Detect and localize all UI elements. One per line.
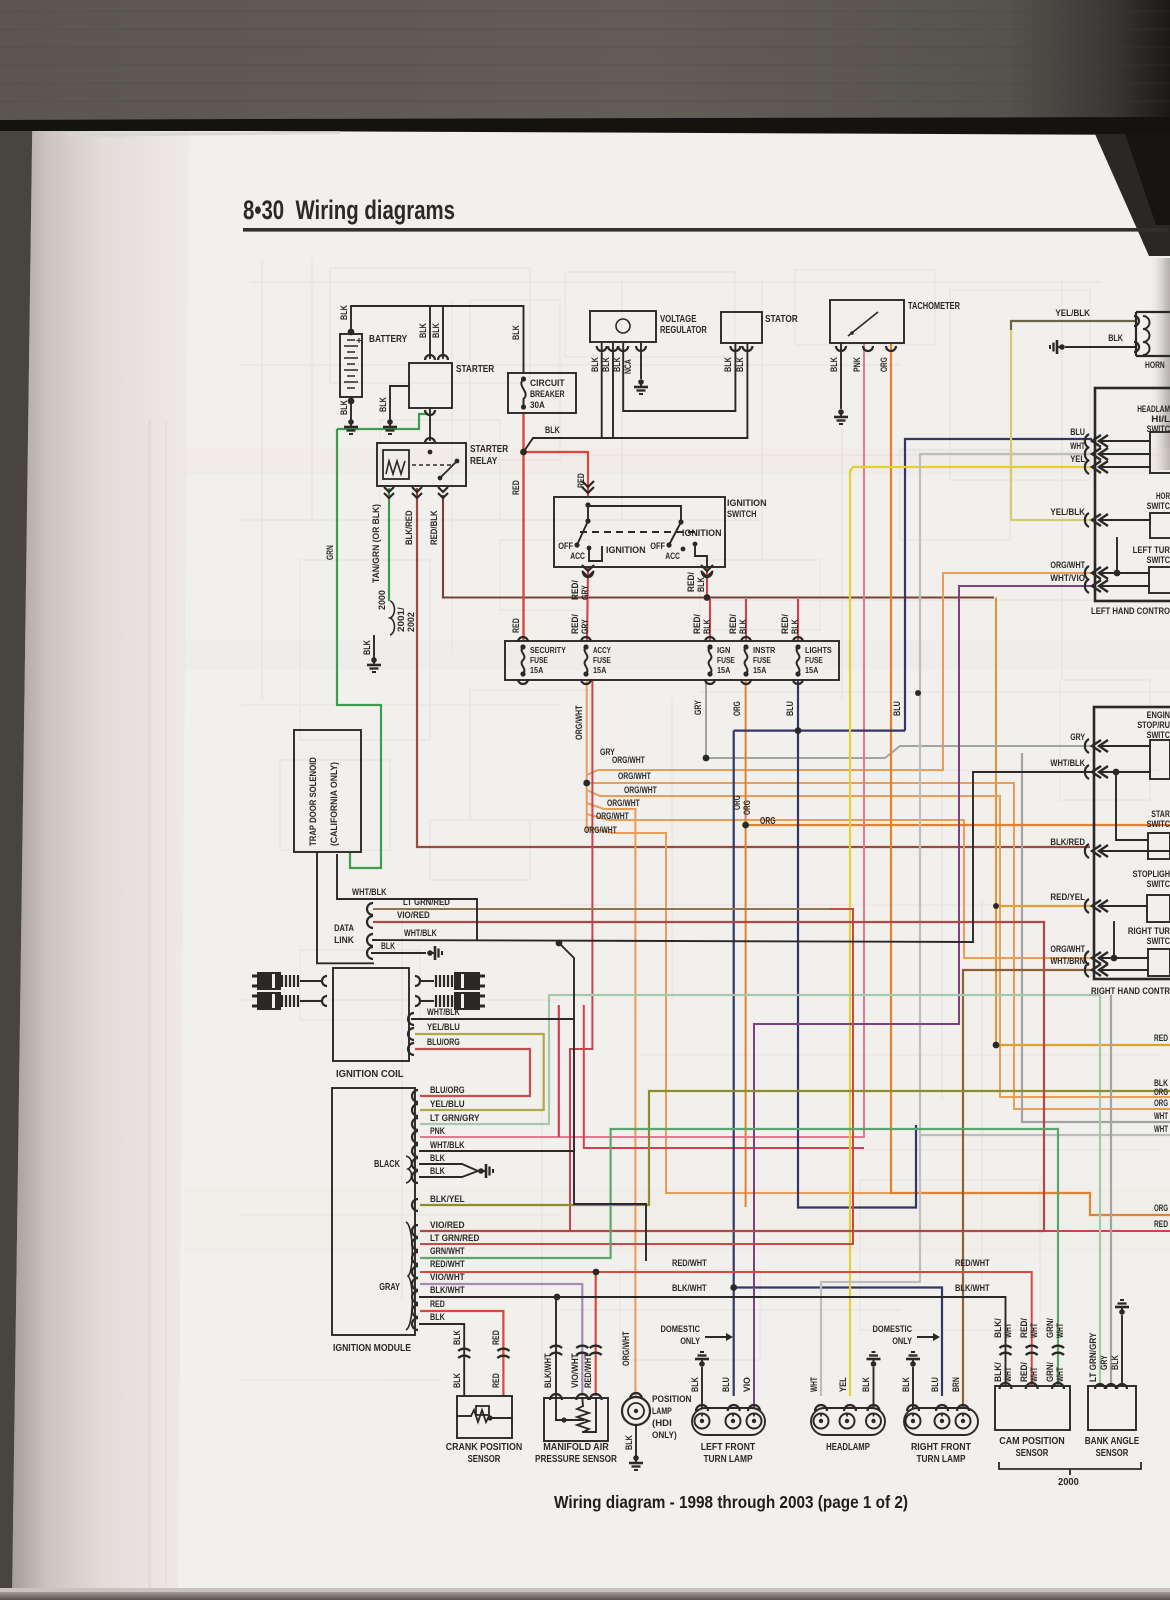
svg-text:ORG/WHT: ORG/WHT: [612, 755, 645, 765]
connector: [1026, 1383, 1038, 1389]
component detail at (455, 993): [415, 996, 420, 1006]
svg-text:TACHOMETER: TACHOMETER: [908, 301, 961, 312]
svg-text:RIGHT FRONT: RIGHT FRONT: [911, 1441, 972, 1453]
headlamp: [811, 1408, 885, 1435]
svg-text:ORG/WHT: ORG/WHT: [607, 798, 640, 808]
svg-text:POSITION: POSITION: [652, 1394, 692, 1405]
symbol detail at (344,346): [344, 345, 358, 347]
svg-text:BLK: BLK: [696, 577, 707, 592]
wire ORG from (745.6,680): [745, 680, 747, 1207]
svg-text:FUSE: FUSE: [805, 655, 823, 665]
wire BLK from (556,1297): [555, 1297, 557, 1396]
connector: [701, 571, 713, 577]
svg-text:RIGHT HAND CONTR: RIGHT HAND CONTR: [1091, 986, 1170, 997]
left front turn lamp: [692, 1408, 765, 1435]
trap door solenoid (California only): [294, 730, 361, 852]
ground: [348, 419, 354, 425]
symbol detail at (440,478): [440, 461, 457, 478]
wire BLK from (1100,851): [1100, 850, 1170, 852]
svg-text:BREAKER: BREAKER: [530, 389, 565, 400]
connector: [868, 1405, 880, 1411]
wire BLU from (733.7,730.6): [733, 731, 735, 1396]
svg-text:STOP/RU: STOP/RU: [1137, 720, 1170, 730]
symbol detail at (490,1418): [487, 1415, 492, 1420]
connector: [1095, 1384, 1105, 1389]
wire BLK from (1100,970): [1100, 969, 1148, 971]
svg-text:INSTR: INSTR: [753, 645, 776, 655]
connector: [863, 346, 873, 351]
svg-text:BLK: BLK: [723, 357, 734, 372]
wire BLK from (457,1416): [457, 1415, 471, 1417]
svg-text:WHT/BLK: WHT/BLK: [427, 1007, 460, 1017]
wire YEL/BLU from (415,1034): [415, 1034, 544, 1110]
svg-text:ORG/WHT: ORG/WHT: [618, 771, 651, 781]
wire ? from (726,1333): [726, 1333, 733, 1341]
svg-text:BLU: BLU: [1070, 427, 1085, 438]
connector: [1092, 448, 1101, 460]
symbol detail at (390,601): [390, 601, 395, 635]
svg-text:VIO/RED: VIO/RED: [397, 910, 430, 920]
wire RED/BLK from (583.8,1005): [584, 1005, 864, 1148]
svg-text:GRY: GRY: [580, 619, 591, 634]
wire BLK from (636,1425): [635, 1425, 637, 1455]
wire RED/BLK from (592.4,680): [570, 680, 1170, 1231]
junction dot: [993, 903, 999, 909]
svg-text:RED: RED: [576, 473, 587, 488]
symbol detail at (1070,1469): [1069, 1469, 1071, 1475]
svg-text:Wiring diagram - 1998 through: Wiring diagram - 1998 through 2003 (page…: [554, 1492, 908, 1512]
connector: [582, 487, 594, 493]
svg-text:PRESSURE SENSOR: PRESSURE SENSOR: [535, 1453, 617, 1465]
svg-text:VIO/RED: VIO/RED: [430, 1220, 465, 1231]
starter relay coil: [383, 450, 409, 479]
svg-text:BLK: BLK: [362, 640, 373, 655]
svg-text:IGNITION COIL: IGNITION COIL: [336, 1069, 404, 1080]
junction dot: [795, 727, 802, 734]
connector: [1000, 1383, 1012, 1389]
wire RED from (420,1311): [420, 1311, 503, 1396]
ground: [427, 950, 433, 956]
svg-text:IGNITION: IGNITION: [682, 528, 722, 539]
junction dot: [520, 449, 527, 456]
wire BLK from (582.3,1398): [581, 1398, 584, 1406]
connector: [367, 903, 373, 915]
svg-text:IGNITION MODULE: IGNITION MODULE: [333, 1343, 411, 1354]
page bottom edge: [0, 1588, 1170, 1592]
symbol detail at (683,549): [681, 547, 686, 552]
svg-text:CIRCUIT: CIRCUIT: [530, 378, 565, 389]
svg-text:DOMESTIC: DOMESTIC: [661, 1324, 701, 1335]
symbol detail at (623,326): [616, 319, 630, 333]
symbol detail at (347,340): [347, 339, 355, 341]
page corner curl highlight: [62, 131, 340, 137]
wire BLK from (623.2,344): [623, 344, 735, 411]
starter motor STARTER: [409, 363, 452, 408]
connector: [438, 355, 448, 360]
wire BLK from (420,1177): [420, 1171, 478, 1177]
wire ORG from (891,343): [891, 343, 1170, 1215]
connector: [907, 1405, 919, 1411]
svg-text:ONLY): ONLY): [652, 1430, 677, 1441]
symbol detail at (425,443): [425, 438, 435, 443]
header rule: [243, 228, 1168, 232]
connector: [408, 1028, 414, 1040]
svg-text:BLK: BLK: [790, 619, 801, 634]
wire BLK from (574,1151): [574, 1151, 646, 1260]
svg-text:BATTERY: BATTERY: [369, 333, 407, 345]
connector: [408, 1043, 414, 1055]
svg-text:BLK: BLK: [861, 1377, 872, 1392]
svg-text:STOPLIGH: STOPLIGH: [1133, 869, 1170, 879]
svg-text:ORG: ORG: [1154, 1098, 1168, 1108]
wire RED/BLK from (558.8,1005): [558, 1005, 560, 1137]
symbol detail at (589,548): [587, 546, 592, 551]
symbol detail at (588,505): [587, 505, 589, 521]
svg-text:HOR: HOR: [1156, 491, 1170, 501]
svg-text:WHT/BLK: WHT/BLK: [430, 1140, 465, 1151]
scanner lid top band: [0, 0, 1170, 120]
svg-text:YEL/BLK: YEL/BLK: [1050, 507, 1085, 518]
wire VIO/RED from (373,922): [373, 922, 1044, 1231]
symbol detail at (873.5,1421): [866, 1414, 881, 1429]
svg-text:DATA: DATA: [334, 923, 354, 934]
right turn switch: [1148, 949, 1170, 976]
right front turn lamp: [904, 1408, 978, 1435]
svg-text:+: +: [356, 336, 362, 347]
symbol detail at (523,647): [520, 644, 525, 649]
svg-text:BLK: BLK: [339, 305, 350, 320]
connector: [1092, 964, 1101, 976]
svg-text:BLK: BLK: [381, 941, 395, 951]
svg-text:SWITC: SWITC: [1147, 819, 1170, 829]
symbol detail at (1136,312): [1135, 312, 1137, 356]
symbol detail at (588,521): [585, 518, 590, 523]
svg-text:WHT: WHT: [1055, 1367, 1066, 1382]
symbol detail at (754,1421): [747, 1414, 762, 1429]
symbol detail at (347,376): [347, 375, 355, 377]
svg-text:YEL: YEL: [1070, 454, 1085, 465]
ground: [1059, 344, 1065, 350]
connector: [590, 1394, 602, 1400]
wire ORG/WHT from (586.7,790): [587, 790, 1170, 1097]
connector: [742, 346, 752, 351]
symbol detail at (733,1421): [726, 1414, 741, 1429]
connector: [367, 947, 373, 959]
svg-text:FUSE: FUSE: [717, 655, 735, 665]
wire BLK from (373,940): [373, 940, 973, 942]
wire BLK from (1100,520): [1100, 519, 1150, 521]
svg-text:MANIFOLD AIR: MANIFOLD AIR: [543, 1441, 609, 1453]
svg-text:15A: 15A: [753, 665, 766, 675]
svg-text:BLK: BLK: [702, 619, 713, 634]
svg-text:BLK: BLK: [545, 425, 560, 436]
wire BLK from (913,1408): [912, 1368, 914, 1408]
wire PNK from (864,343): [420, 343, 864, 1137]
svg-text:BANK ANGLE: BANK ANGLE: [1085, 1435, 1140, 1447]
svg-text:RED: RED: [511, 618, 522, 633]
connector: [936, 1405, 948, 1411]
svg-text:SWITC: SWITC: [1147, 424, 1170, 434]
wire BLK from (641,342): [640, 342, 642, 378]
wire BLK from (583,1432): [583, 1398, 596, 1432]
wire BLK from (351,334): [351, 306, 524, 373]
connector: [583, 572, 593, 577]
connector: [844, 1405, 856, 1411]
svg-text:2002: 2002: [406, 612, 417, 632]
wire RED from (523.5,452): [524, 452, 589, 497]
wire BLK from (374,636): [373, 636, 375, 658]
svg-text:TAN/GRN (OR BLK): TAN/GRN (OR BLK): [371, 504, 382, 583]
svg-text:BLU: BLU: [721, 1377, 732, 1392]
ignition switch: [554, 497, 725, 567]
symbol detail at (412,465): [412, 464, 452, 466]
symbol detail at (636,1411): [628, 1403, 644, 1419]
symbol detail at (821,1421): [814, 1414, 829, 1429]
wire BLK from (1122,1386): [1121, 1316, 1123, 1386]
wire RED/BLK from (798,599): [797, 599, 799, 641]
symbol detail at (523.5,407): [521, 404, 526, 409]
svg-text:(HDI: (HDI: [652, 1418, 672, 1429]
headlamp hi/lo switch: [1150, 432, 1170, 473]
ignition module: [332, 1088, 415, 1335]
wire BLK from (559,943): [412, 943, 574, 1019]
junction dot: [554, 1294, 561, 1301]
wire BLK from (430,408): [429, 408, 431, 440]
svg-text:WHT: WHT: [809, 1377, 820, 1392]
svg-text:SWITC: SWITC: [1147, 936, 1170, 946]
ground: [699, 1361, 705, 1367]
svg-text:HEADLAM: HEADLAM: [1137, 404, 1170, 414]
svg-text:BLU: BLU: [785, 701, 796, 716]
ground: [478, 1168, 484, 1174]
junction dot: [593, 1269, 600, 1276]
wire BLK from (1100,573): [1100, 572, 1149, 574]
ground: [633, 1455, 639, 1461]
top-right corner shadow wedge: [1095, 134, 1170, 256]
svg-text:LT GRN/GRY: LT GRN/GRY: [430, 1113, 480, 1124]
svg-text:(CALIFORNIA ONLY): (CALIFORNIA ONLY): [329, 762, 340, 846]
wire BLU from (733.7,1287.5): [734, 1288, 942, 1397]
svg-text:PNK: PNK: [852, 357, 863, 372]
symbol detail at (852,333): [850, 331, 854, 335]
svg-text:STAR: STAR: [1151, 809, 1170, 819]
wire #d89a3a from (996,597.5): [995, 598, 997, 1046]
svg-text:LIGHTS: LIGHTS: [805, 645, 832, 655]
connector: [367, 934, 373, 946]
svg-text:PNK: PNK: [430, 1126, 445, 1137]
svg-text:ORG: ORG: [879, 357, 890, 372]
symbol detail at (847,1421): [840, 1414, 855, 1429]
wire ORG/WHT from (586.7,775): [587, 573, 1092, 775]
svg-text:BLK/YEL: BLK/YEL: [430, 1194, 465, 1205]
svg-text:REGULATOR: REGULATOR: [660, 325, 707, 336]
svg-text:ORG/WHT: ORG/WHT: [596, 811, 629, 821]
svg-text:LT GRN/RED: LT GRN/RED: [403, 897, 450, 907]
svg-text:DOMESTIC: DOMESTIC: [873, 1324, 913, 1335]
svg-text:BLK: BLK: [339, 400, 350, 415]
wire BLK from (1116,772): [1116, 772, 1148, 840]
svg-text:BLK: BLK: [418, 323, 429, 338]
wire BLK from (1100,958): [1100, 957, 1148, 959]
svg-text:LEFT HAND CONTRO: LEFT HAND CONTRO: [1091, 606, 1170, 617]
symbol detail at (942,1421): [935, 1414, 950, 1429]
wire BLK from (918,1337): [918, 1336, 933, 1338]
svg-text:BLK: BLK: [735, 357, 746, 372]
svg-text:BLK: BLK: [690, 1377, 701, 1392]
svg-text:RED: RED: [1154, 1033, 1168, 1043]
connector: [1092, 567, 1101, 579]
wire BLK from (841,343): [840, 343, 842, 408]
wire BLK from (1100,746): [1100, 745, 1150, 747]
voltage regulator: [590, 311, 656, 342]
svg-text:BRN: BRN: [951, 1377, 962, 1392]
svg-text:LINK: LINK: [334, 935, 354, 946]
page top edge shadow: [0, 117, 1170, 135]
left hand controls box: [1095, 388, 1170, 601]
svg-text:BLK/WHT: BLK/WHT: [430, 1285, 465, 1296]
left turn switch: [1149, 567, 1170, 593]
svg-text:YEL: YEL: [838, 1377, 849, 1392]
svg-text:BLK: BLK: [829, 357, 840, 372]
wire GRN from (428,414): [337, 414, 428, 429]
stoplight switch: [1147, 895, 1170, 922]
svg-text:BLK: BLK: [430, 1166, 445, 1177]
svg-text:ORG: ORG: [732, 701, 743, 716]
connector: [1134, 316, 1139, 326]
svg-text:ONLY: ONLY: [680, 1336, 700, 1347]
svg-text:RELAY: RELAY: [470, 455, 497, 467]
connector: [412, 1158, 418, 1170]
symbol detail at (681,522): [678, 519, 683, 524]
svg-text:NCA: NCA: [623, 359, 634, 374]
wire RED/BLK from (443,495): [443, 495, 994, 598]
wire #58a058 from (373,909): [373, 908, 830, 910]
wire BLK from (747.4,344): [746, 344, 748, 438]
symbol detail at (588,505): [585, 502, 590, 507]
svg-text:SENSOR: SENSOR: [468, 1453, 501, 1465]
wire BLU from (905,730.6): [905, 439, 1092, 731]
symbol detail at (471,1416): [471, 1410, 489, 1422]
connector: [412, 1104, 418, 1116]
svg-text:ONLY: ONLY: [892, 1336, 912, 1347]
svg-text:BLK/WHT: BLK/WHT: [955, 1283, 990, 1294]
svg-text:RED/WHT: RED/WHT: [583, 1353, 594, 1388]
connector: [608, 346, 618, 351]
svg-text:BLK/RED: BLK/RED: [1050, 837, 1085, 848]
svg-text:ORG/WHT: ORG/WHT: [624, 785, 657, 795]
connector: [582, 571, 594, 577]
svg-text:LT GRN/RED: LT GRN/RED: [430, 1233, 480, 1244]
svg-text:VIO/WHT: VIO/WHT: [570, 1353, 581, 1388]
wire BLK/YEL from (420,1205): [420, 1091, 1170, 1205]
svg-text:BLK: BLK: [901, 1377, 912, 1392]
svg-text:WHT/BRN: WHT/BRN: [1050, 956, 1085, 967]
wire GRN/WHT from (420,1258): [420, 1129, 1058, 1386]
wire LT GRN/RED from (373,909): [373, 909, 853, 1244]
symbol detail at (344,358): [344, 357, 358, 359]
wire BLK from (420,1324): [420, 1324, 464, 1396]
connector: [412, 1278, 418, 1290]
crank position sensor: [457, 1396, 512, 1438]
svg-text:BLK: BLK: [624, 1435, 635, 1450]
circuit breaker 30A: [508, 373, 576, 413]
wire RED from (420,1272): [420, 1272, 1032, 1386]
wire YEL/BLK from (1092,520): [1011, 330, 1092, 520]
symbol detail at (588,506): [588, 506, 681, 522]
svg-text:GRY: GRY: [580, 585, 591, 600]
svg-text:ORG/WHT: ORG/WHT: [584, 825, 617, 835]
svg-text:VIO/WHT: VIO/WHT: [430, 1272, 465, 1283]
wire BLK from (1117,573): [1116, 538, 1118, 573]
wire WHT/VIO from (1092,586): [754, 586, 1092, 1408]
svg-text:ORG: ORG: [1154, 1203, 1168, 1213]
junction dot: [915, 690, 921, 696]
manifold air pressure sensor: [544, 1398, 608, 1441]
wire YEL/BLK from (1011,330): [1011, 321, 1136, 330]
connector: [576, 1394, 588, 1400]
connector: [590, 1346, 602, 1348]
symbol detail at (963,1421): [956, 1414, 971, 1429]
book fore-edge page stack: [12, 0, 190, 1600]
connector: [1052, 1383, 1064, 1389]
symbol detail at (406,1156): [406, 1156, 412, 1183]
junction dot: [583, 780, 590, 787]
symbol detail at (702,1421): [695, 1414, 710, 1429]
svg-text:BLK/WHT: BLK/WHT: [543, 1353, 554, 1388]
connector: [1092, 845, 1101, 857]
svg-text:SWITC: SWITC: [1147, 555, 1170, 565]
symbol detail at (1143,316): [1143, 316, 1150, 329]
wire GRN from (337,429): [337, 429, 381, 868]
symbol detail at (347,352): [347, 351, 355, 353]
wire RED/YEL from (996,1045): [996, 1044, 1170, 1046]
wire RED from (523.5,413): [522, 413, 524, 641]
symbol detail at (848,336): [848, 312, 878, 336]
connector: [1092, 766, 1101, 778]
svg-text:YEL/BLK: YEL/BLK: [1055, 308, 1090, 319]
svg-text:30A: 30A: [530, 400, 545, 411]
svg-text:ORG: ORG: [760, 816, 776, 827]
wire BLK from (574,1019): [420, 1019, 574, 1151]
svg-text:BLK: BLK: [1110, 1355, 1121, 1370]
ignition coil: [333, 968, 409, 1061]
wire RED from (595.7,1272): [595, 1272, 597, 1396]
wire GRY from (1111,1386): [1110, 995, 1112, 1386]
symbol detail at (589,548): [589, 546, 602, 561]
connector: [412, 487, 422, 492]
horn switch: [1150, 513, 1170, 538]
svg-text:LAMP: LAMP: [652, 1406, 672, 1417]
connector: [702, 572, 712, 577]
svg-text:RED: RED: [491, 1373, 502, 1388]
svg-text:BLK: BLK: [452, 1373, 463, 1388]
wire ORG/WHT from (586.7,803): [587, 803, 636, 1396]
connector: [425, 410, 435, 415]
svg-text:BLU/ORG: BLU/ORG: [427, 1037, 460, 1047]
connector: [1092, 514, 1101, 526]
svg-text:WHT: WHT: [1003, 1323, 1014, 1338]
junction dot: [348, 329, 355, 336]
connector: [1134, 342, 1139, 352]
wire BLK from (706,1337): [706, 1336, 726, 1338]
wire BLU from (733.7,730.6): [734, 729, 905, 731]
symbol detail at (430,452): [428, 450, 433, 455]
svg-text:ORG: ORG: [1154, 1087, 1168, 1097]
wire BLK from (443,306): [442, 306, 444, 358]
component detail at (258, 993): [322, 996, 327, 1006]
svg-text:SWITC: SWITC: [1147, 501, 1170, 511]
svg-text:ACC: ACC: [570, 551, 585, 562]
